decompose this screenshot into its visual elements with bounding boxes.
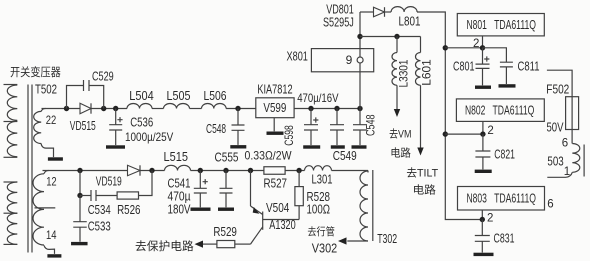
arrow to TILT circuit xyxy=(417,148,423,156)
wire bus to N801 pin2 xyxy=(445,47,482,49)
wire L301 to T302 xyxy=(332,170,369,172)
secondary center tap lead xyxy=(35,207,56,209)
wire to C831 xyxy=(481,220,483,236)
resistor R529 xyxy=(217,241,235,248)
wire fuse to winding 503 xyxy=(571,130,573,144)
node N802 pin2 / C821 xyxy=(480,131,485,136)
wire to R528 xyxy=(298,171,300,187)
svg-text:C598: C598 xyxy=(282,125,296,146)
ground under C555 xyxy=(218,208,234,211)
wire to C533 xyxy=(79,196,81,222)
wire L3301 to VM arrow xyxy=(396,85,398,109)
node N801 pin2 / C801 xyxy=(480,45,485,50)
capacitor C549 xyxy=(330,125,344,130)
wire bus to N802 pin2 xyxy=(445,133,483,135)
svg-text:180V: 180V xyxy=(168,203,192,217)
node N803 pin2 / C831 xyxy=(480,217,485,222)
wire to C536 xyxy=(115,109,117,125)
IC N803 TDA6111Q box xyxy=(458,187,545,211)
wire VD515 to L504 xyxy=(91,108,127,110)
node bus / N801 pin2 xyxy=(443,45,448,50)
svg-text:C548: C548 xyxy=(364,114,378,136)
svg-text:C534: C534 xyxy=(88,203,111,217)
wire C533 to ground xyxy=(79,227,81,242)
wire V504 base to R528 xyxy=(263,219,299,221)
node bus / N802 pin2 xyxy=(443,131,448,136)
node C536 xyxy=(113,106,118,111)
wire 22 rail to VD515 xyxy=(42,108,81,110)
node VD515 cathode / C529 return xyxy=(101,106,106,111)
svg-text:C811: C811 xyxy=(518,60,540,74)
ground under V599 xyxy=(267,132,284,135)
inductor L801 xyxy=(391,7,417,12)
svg-text:V599: V599 xyxy=(263,101,286,115)
V504 emitter with arrow xyxy=(251,206,263,215)
wire V504 emitter lead xyxy=(250,171,252,207)
svg-text:TDA6111Q: TDA6111Q xyxy=(494,18,536,32)
wire N803 pin 2 xyxy=(481,210,483,220)
connector X801 box xyxy=(311,49,373,72)
transformer T302 core line xyxy=(372,170,374,241)
svg-text:TDA6111Q: TDA6111Q xyxy=(493,104,535,118)
T502 secondary winding pins 12/14 xyxy=(44,170,49,173)
wire C598 to ground xyxy=(310,130,312,145)
wire L601 to TILT arrow xyxy=(420,85,422,147)
wire C536 to ground xyxy=(115,130,117,145)
svg-text:L505: L505 xyxy=(167,89,191,103)
svg-text:T302: T302 xyxy=(377,232,397,246)
wire L801 to right bus xyxy=(417,12,445,48)
capacitor C548 (output) xyxy=(353,125,367,130)
svg-text:470µ/16V: 470µ/16V xyxy=(297,91,338,105)
resistor R527 0.33R/2W xyxy=(264,167,285,175)
svg-text:C529: C529 xyxy=(92,70,114,84)
primary winding upper bumps xyxy=(7,85,17,120)
node C541 xyxy=(198,168,203,173)
wire C548 to ground xyxy=(237,130,239,145)
wire into X801 pin 9 xyxy=(359,37,361,58)
node C534 / C533 xyxy=(77,193,82,198)
svg-text:VD519: VD519 xyxy=(96,175,122,189)
svg-text:6: 6 xyxy=(562,138,568,150)
svg-text:50V: 50V xyxy=(547,121,564,135)
C536 polarity plus xyxy=(117,117,122,122)
svg-text:开关变压器: 开关变压器 xyxy=(10,65,61,79)
regulator V599 KIA7812 box xyxy=(256,98,294,118)
svg-text:S5295J: S5295J xyxy=(323,15,354,29)
svg-text:22: 22 xyxy=(46,113,57,127)
capacitor C536 xyxy=(109,125,122,130)
wire N802 pin 2 xyxy=(482,121,484,134)
capacitor C821 xyxy=(475,151,490,157)
inductor L515 xyxy=(165,165,191,170)
svg-text:503: 503 xyxy=(547,155,563,169)
arrow to protection circuit xyxy=(195,241,204,248)
node V504 emitter xyxy=(248,168,253,173)
wire C549 to ground xyxy=(336,130,338,145)
wire to C555 xyxy=(225,171,227,189)
inductor L504 xyxy=(127,104,152,109)
svg-text:470µ: 470µ xyxy=(168,190,191,204)
T302 winding bumps xyxy=(360,171,368,241)
svg-text:N801: N801 xyxy=(467,18,487,32)
wire to C821 xyxy=(482,134,484,151)
ground under C831 xyxy=(474,253,494,256)
svg-text:电路: 电路 xyxy=(390,147,411,160)
wire L506 to V599 xyxy=(226,108,256,110)
svg-text:0.33Ω/2W: 0.33Ω/2W xyxy=(245,149,293,163)
wire V599 ground pin xyxy=(273,118,275,132)
V504 collector xyxy=(251,227,263,244)
IC N801 TDA6111Q box xyxy=(457,14,544,36)
ground under C598 xyxy=(303,145,320,148)
node VD515 anode / C529 tap xyxy=(64,106,69,111)
svg-text:L301: L301 xyxy=(312,173,333,187)
ground under winding 14 xyxy=(47,254,61,257)
wire to C548 xyxy=(237,109,239,126)
ground under C541 xyxy=(191,208,211,211)
wire arrow to R529 xyxy=(203,243,217,245)
diode VD801 xyxy=(374,7,385,17)
svg-text:100Ω: 100Ω xyxy=(307,203,331,217)
svg-text:2: 2 xyxy=(473,38,479,50)
svg-text:12: 12 xyxy=(46,175,57,189)
inductor L3301 xyxy=(392,53,397,86)
wire R527 to L301 xyxy=(285,170,304,172)
secondary winding 22 bumps xyxy=(34,111,42,143)
wire to C811 xyxy=(483,48,507,62)
node C549 xyxy=(334,106,339,111)
wire right bus lower to N803 pin2 xyxy=(445,134,482,219)
wire C529 branch left xyxy=(67,86,84,109)
ground under C811 xyxy=(499,84,516,87)
svg-text:V302: V302 xyxy=(312,242,337,256)
primary upper winding lead top xyxy=(4,84,18,86)
arrow to VM circuit xyxy=(394,109,400,117)
svg-text:C549: C549 xyxy=(333,149,357,163)
node VD801/X801/L3301 tap xyxy=(357,34,362,39)
inductor L506 xyxy=(202,104,227,109)
wire R529 to V504 collector xyxy=(235,243,251,245)
svg-text:1000µ/25V: 1000µ/25V xyxy=(125,130,173,144)
wire to C534 xyxy=(80,195,91,197)
svg-text:14: 14 xyxy=(46,228,57,242)
capacitor C533 xyxy=(73,222,87,228)
ground under C548 xyxy=(230,145,246,148)
capacitor C598 xyxy=(304,125,318,130)
wire to C541 xyxy=(199,171,201,189)
wire C541 to ground xyxy=(199,193,201,207)
ground under C536 xyxy=(106,145,125,148)
T502 secondary winding pin 22 xyxy=(41,108,45,111)
svg-text:L515: L515 xyxy=(164,150,189,164)
wire C801 to ground xyxy=(482,68,484,85)
inductor L601 xyxy=(416,53,421,86)
winding 503 core line xyxy=(583,145,585,177)
V504 base bar xyxy=(262,212,264,230)
primary lower mid lead xyxy=(4,212,18,214)
secondary 12-14 bottom lead xyxy=(44,245,55,254)
svg-text:F502: F502 xyxy=(546,83,569,97)
transformer T502 core xyxy=(28,85,32,253)
ground under winding 22 xyxy=(48,157,63,160)
ground under C549 xyxy=(331,145,345,148)
secondary 22 bottom lead xyxy=(41,144,53,158)
transformer T302 winding xyxy=(367,171,369,173)
wire VD801 to L801 xyxy=(385,11,392,13)
resistor R526 xyxy=(117,192,138,199)
wire C529 branch right xyxy=(89,86,104,109)
node C548 input xyxy=(235,106,240,111)
wire branch down xyxy=(79,171,81,196)
svg-text:L801: L801 xyxy=(399,15,421,29)
inductor L505 xyxy=(164,104,190,109)
wire L504-L505 xyxy=(152,108,164,110)
node C598 xyxy=(308,106,313,111)
svg-text:L506: L506 xyxy=(204,89,227,103)
wire L505-L506 xyxy=(190,108,202,110)
svg-text:C801: C801 xyxy=(453,60,475,74)
connector X801 pin 9 circle xyxy=(357,57,363,63)
svg-text:C821: C821 xyxy=(494,148,515,162)
wire to C801 xyxy=(482,48,484,64)
node winding12 / C534 branch xyxy=(77,168,82,173)
svg-text:L504: L504 xyxy=(129,89,153,103)
wire L515 to R527 xyxy=(191,170,264,172)
capacitor C529 xyxy=(84,80,90,91)
wire R528 to base xyxy=(298,206,300,220)
svg-text:TDA6111Q: TDA6111Q xyxy=(494,192,536,206)
wire C821 to ground xyxy=(482,157,484,169)
svg-text:N802: N802 xyxy=(465,104,485,118)
wire C811 to ground xyxy=(505,67,507,84)
svg-text:去VM: 去VM xyxy=(389,128,411,141)
wire 12V output rail xyxy=(294,108,360,110)
wire pin9 tap to L3301/L601 xyxy=(360,36,421,38)
capacitor C548 (input) xyxy=(232,125,245,130)
fuse F502 xyxy=(566,97,579,130)
wire R526 up to rail xyxy=(139,171,153,196)
svg-text:L3301: L3301 xyxy=(396,59,410,87)
C598 polarity plus xyxy=(313,117,318,122)
T302 bottom lead xyxy=(347,240,368,242)
svg-text:9: 9 xyxy=(346,53,353,67)
svg-text:去保护电路: 去保护电路 xyxy=(135,239,194,253)
node C555 xyxy=(223,168,228,173)
wire to L3301 xyxy=(396,37,398,53)
svg-text:C831: C831 xyxy=(494,232,515,246)
capacitor C801 xyxy=(476,64,490,68)
wire to C548 output side xyxy=(359,109,361,125)
svg-text:VD515: VD515 xyxy=(70,119,96,133)
diode VD515 xyxy=(80,103,91,113)
svg-text:C536: C536 xyxy=(130,116,153,130)
ground under C548 output xyxy=(352,145,367,148)
wire to C549 xyxy=(336,109,338,125)
wire C831 to ground xyxy=(481,241,483,252)
transformer winding 503 xyxy=(572,144,580,173)
primary lower winding lead top xyxy=(4,181,18,183)
capacitor C534 xyxy=(91,190,96,201)
svg-text:C533: C533 xyxy=(88,220,111,234)
capacitor C811 xyxy=(500,62,513,67)
svg-text:C548: C548 xyxy=(206,122,226,136)
primary winding lower bumps xyxy=(7,182,17,213)
wire C534 to R526 xyxy=(96,195,117,197)
svg-text:R526: R526 xyxy=(117,203,140,217)
capacitor C541 xyxy=(194,188,207,193)
svg-text:R529: R529 xyxy=(213,225,237,239)
wire VD801 anode drop xyxy=(359,12,361,37)
ground under C533 xyxy=(71,242,88,245)
capacitor C831 xyxy=(475,236,490,242)
wire right bus upper xyxy=(444,48,446,134)
winding 503 bottom lead xyxy=(547,172,572,177)
ground under C821 xyxy=(475,170,492,173)
wire to L601 xyxy=(420,37,422,53)
diode VD519 xyxy=(128,165,141,175)
svg-text:L601: L601 xyxy=(420,59,434,86)
svg-text:R527: R527 xyxy=(264,177,288,191)
ground under C801 xyxy=(475,86,491,89)
inductor L301 xyxy=(305,166,332,171)
svg-text:T502: T502 xyxy=(35,83,57,97)
svg-text:2: 2 xyxy=(487,213,493,225)
primary winding lower second half xyxy=(7,213,17,244)
wire to C598 xyxy=(310,109,312,125)
svg-text:6: 6 xyxy=(547,199,553,211)
C801 polarity plus xyxy=(484,56,489,61)
primary winding mid lead xyxy=(4,121,18,123)
wire C548 out to ground xyxy=(359,130,361,145)
svg-text:去行管: 去行管 xyxy=(307,225,335,238)
svg-text:2: 2 xyxy=(487,125,493,137)
primary upper lead bottom xyxy=(4,156,18,158)
IC N802 TDA6111Q box xyxy=(456,99,544,122)
node VD519 cathode / R526 return xyxy=(149,168,154,173)
svg-text:X801: X801 xyxy=(287,50,308,64)
arrow to horizontal output xyxy=(338,237,347,244)
svg-text:V504: V504 xyxy=(266,201,289,215)
node C548 output / X801 feed xyxy=(357,106,362,111)
node R528 / L301 xyxy=(296,168,301,173)
wire to fuse F502 xyxy=(547,70,572,97)
primary winding upper second half xyxy=(7,121,17,156)
wire VD519 to L515 xyxy=(140,170,165,172)
svg-text:电路: 电路 xyxy=(413,184,436,197)
wire to VD801 xyxy=(360,11,374,13)
C541 polarity plus xyxy=(203,179,208,184)
svg-text:A1320: A1320 xyxy=(269,218,295,232)
svg-text:C541: C541 xyxy=(168,177,191,191)
wire C555 to ground xyxy=(225,193,227,207)
primary lower lead bottom xyxy=(4,243,18,245)
svg-text:C555: C555 xyxy=(215,151,239,165)
wire 12 rail to VD519 xyxy=(43,170,128,172)
svg-text:KIA7812: KIA7812 xyxy=(257,83,292,97)
wire N801 pin 2 xyxy=(482,36,484,48)
wire X801 pin 9 to 12V rail xyxy=(359,63,361,109)
svg-text:去TILT: 去TILT xyxy=(406,167,438,180)
node L3301 top xyxy=(394,34,399,39)
svg-text:N803: N803 xyxy=(467,192,487,206)
capacitor C555 xyxy=(220,188,233,193)
resistor R528 xyxy=(295,187,303,206)
svg-text:VD801: VD801 xyxy=(326,2,354,16)
secondary winding 12-14 bumps xyxy=(33,174,44,245)
